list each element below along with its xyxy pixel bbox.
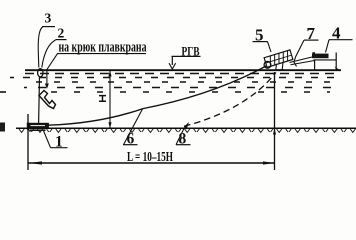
right dim arrow (263, 161, 275, 164)
depth dimension H line (99, 71, 112, 129)
svg-text:3: 3 (45, 10, 52, 25)
label 8 with leader (176, 128, 191, 148)
svg-text:L = 10–15Н: L = 10–15Н (127, 149, 173, 164)
L dimension: left extension line (27, 114, 29, 170)
seabed hatching (19, 129, 355, 132)
L dimension: right extension line (274, 72, 276, 170)
label 7 with leader (294, 24, 319, 67)
label 1 with leader (43, 130, 68, 151)
crane hook (39, 91, 56, 109)
up arrow on right extension at seabed (273, 129, 276, 135)
haul cable to ramp (143, 66, 267, 109)
water surface line (25, 69, 341, 71)
left edge dash (0, 91, 6, 93)
winch barge (item 4) (290, 52, 341, 71)
pulley circle (264, 61, 271, 68)
touchdown arrow (item 8 point) (184, 122, 189, 130)
dashed pipeline intermediate position (184, 73, 276, 127)
water dashes row 5 (40, 91, 330, 93)
svg-text:2: 2 (58, 26, 65, 41)
pipeline curve on bottom (49, 109, 144, 126)
water dashes row 2 (10, 77, 338, 79)
hull right side (335, 53, 337, 71)
label 5 with leader (253, 25, 272, 52)
water dashes row 4 (24, 87, 340, 89)
label 6 with leader (123, 109, 143, 148)
dimension line L (29, 162, 275, 164)
pipe end anchor block (item 1) (27, 123, 49, 131)
left dim arrow (29, 161, 43, 164)
winch drum (312, 54, 329, 59)
РГВ label (design water level) (169, 44, 201, 70)
hull left side (314, 60, 316, 70)
lifting eye (loop) at pipe riser top (38, 69, 43, 77)
sling riser wire (38, 77, 41, 123)
ramp support (275, 62, 284, 70)
text "на крюк плавкрана" with leader (45, 40, 147, 90)
leader label 2 (42, 26, 67, 68)
water dashes row 1 (25, 73, 340, 75)
water dashes row 3 (26, 81, 336, 83)
ramp sled (item 5) (264, 50, 293, 70)
waterline / hull bottom (298, 69, 339, 71)
deck line (314, 59, 337, 61)
seabed line (16, 127, 356, 129)
haul cable to winch (doubled) (290, 57, 313, 63)
leader label 3 (38, 10, 55, 67)
stern arrow mark (335, 67, 341, 71)
left margin scan blob (0, 123, 5, 132)
label 4 with leader (326, 24, 353, 53)
